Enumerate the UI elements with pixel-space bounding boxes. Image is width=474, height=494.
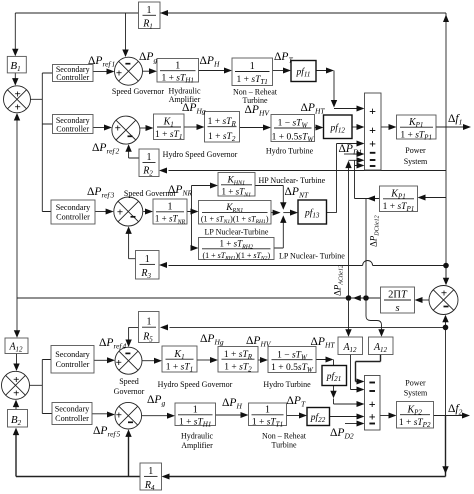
caption LP Nuclear Turbine 1 — [205, 228, 269, 237]
svg-text:+: + — [115, 123, 121, 135]
svg-text:Turbine: Turbine — [271, 441, 296, 450]
caption Hydro Speed Governor row2 — [163, 150, 238, 159]
svg-text:KHN1: KHN1 — [226, 176, 245, 187]
svg-text:KP2: KP2 — [406, 404, 422, 416]
block secondary controller SC4 — [51, 346, 94, 374]
block A12 first — [338, 337, 363, 355]
summer2 sign - input1 — [369, 382, 375, 384]
svg-text:ΔPHV: ΔPHV — [245, 104, 271, 118]
caption Hydraulic Amplifier area2 — [181, 432, 213, 451]
wire node to pf13 — [283, 212, 291, 214]
svg-text:A12: A12 — [342, 342, 357, 354]
block power system 2 K_P2/(1+sT_P2) — [397, 402, 434, 430]
svg-text:1: 1 — [168, 202, 173, 213]
summing junction ACE2 — [2, 371, 30, 399]
sign - SG5 bottom — [128, 421, 133, 423]
svg-text:Governor: Governor — [114, 387, 145, 396]
svg-text:Δf1: Δf1 — [448, 113, 462, 127]
block non-reheat turbine area2 1/(1+sT_T1) — [249, 403, 287, 428]
wire tie circle bottom input — [445, 322, 447, 327]
wire tie circle top input — [445, 266, 447, 279]
caption Speed Governor row4 — [114, 377, 145, 396]
svg-text:pf12: pf12 — [329, 123, 345, 135]
svg-text:ΔPH: ΔPH — [200, 55, 220, 69]
svg-text:K1: K1 — [163, 117, 174, 129]
caption LP Nuclear Turbine 2 — [279, 252, 345, 261]
wire SG4 to K1 block area2 — [142, 360, 156, 362]
svg-text:(1 + sTN1)(1 + sTRH1): (1 + sTN1)(1 + sTRH1) — [201, 214, 269, 225]
summer1 sign + input1 — [369, 104, 376, 118]
junction dot df1 riser — [443, 263, 449, 269]
wire left A12 to ACE2 — [16, 354, 18, 366]
svg-text:ΔPref4: ΔPref4 — [99, 337, 127, 351]
svg-text:Δf2: Δf2 — [448, 403, 463, 417]
wire SG2 to K1 block — [140, 127, 147, 129]
svg-text:ΔPHg: ΔPHg — [200, 333, 224, 347]
svg-text:+: + — [369, 137, 376, 151]
svg-text:Speed: Speed — [119, 377, 139, 386]
wire tie summing circle to 2piT block — [422, 299, 429, 301]
svg-text:ΔPDCtie12: ΔPDCtie12 — [369, 215, 381, 247]
block B1 — [7, 56, 26, 73]
label dP_Hg row4 — [200, 333, 224, 347]
wire SC5 to summing point SG5 — [92, 413, 108, 415]
wire top feedback line y=13 — [15, 13, 446, 127]
svg-text:ΔPg: ΔPg — [139, 51, 157, 65]
svg-text:B2: B2 — [11, 414, 22, 427]
wire DC link output junction — [349, 160, 380, 295]
svg-text:2ΠT: 2ΠT — [388, 290, 408, 301]
wire SC4 to summing point SG4 — [94, 359, 108, 361]
wire governor to hydro turbine — [240, 127, 265, 129]
label dP_ref5 — [93, 425, 121, 439]
svg-text:1 + sTR: 1 + sTR — [224, 350, 253, 361]
summing junction SG5 — [115, 402, 142, 429]
svg-text:ΔPg: ΔPg — [147, 394, 165, 408]
svg-text:ΔPH: ΔPH — [222, 397, 242, 411]
junction dot tie line left — [346, 295, 352, 301]
block power system 1 K_P1/(1+sT_P1) — [397, 115, 437, 141]
svg-text:Controller: Controller — [56, 73, 89, 82]
block B2 — [8, 410, 28, 428]
svg-text:+: + — [369, 123, 376, 137]
wire A12 second block elbow to summer2 input 1 — [356, 355, 381, 382]
block DC link K_P1/(1+sT_P1) — [380, 186, 418, 213]
sign + SG2 left — [115, 123, 121, 135]
label dP_ref1 — [88, 55, 115, 69]
svg-text:1: 1 — [147, 152, 152, 163]
label dP_g row1 — [139, 51, 157, 65]
block 1/R1 — [139, 2, 161, 31]
svg-text:1: 1 — [147, 5, 152, 16]
svg-text:1 + sTN1: 1 + sTN1 — [221, 186, 251, 198]
svg-text:B1: B1 — [10, 60, 20, 73]
label df2 — [448, 403, 463, 417]
label dP_ACtie12 rotated — [333, 265, 345, 296]
svg-text:LP Nuclear- Turbine: LP Nuclear- Turbine — [279, 252, 345, 261]
junction dot tie line right — [363, 295, 369, 301]
svg-text:ΔPref2: ΔPref2 — [92, 142, 120, 156]
sign + SG5 left — [116, 410, 122, 422]
wire 1/R5 to SG4 — [129, 327, 139, 340]
wire S-curve AC+DC tie down to A12 second block — [366, 301, 382, 331]
svg-text:Hydro Speed Governor: Hydro Speed Governor — [163, 150, 238, 159]
svg-text:1: 1 — [265, 405, 270, 416]
caption Non-Reheat Turbine area2 — [262, 432, 307, 450]
svg-text:Hydro Speed Governor: Hydro Speed Governor — [158, 380, 233, 389]
svg-text:pf13: pf13 — [304, 208, 320, 220]
arrowheads summer1 output / power system / df1 — [389, 124, 397, 130]
caption HP Nuclear Turbine — [259, 176, 326, 185]
svg-text:ΔPNR: ΔPNR — [168, 184, 192, 198]
arrowheads area1 row3 nuclear — [106, 209, 114, 215]
svg-text:System: System — [404, 157, 428, 166]
svg-text:Hydro Turbine: Hydro Turbine — [266, 147, 314, 156]
block HP nuclear turbine K_HN1/(1+sT_N1) — [218, 173, 255, 199]
label dP_ref4 — [99, 337, 127, 351]
svg-text:ΔPT: ΔPT — [274, 51, 293, 65]
wire ACE2 output to controller bus — [30, 360, 53, 414]
wire left tie riser down to left A12 — [16, 298, 18, 331]
svg-text:ΔPHT: ΔPHT — [311, 336, 336, 350]
block hydro governor area2 (1+sT_R)/(1+sT_2) — [218, 347, 258, 374]
svg-text:+: + — [117, 207, 123, 219]
caption Hydro Turbine area2 — [263, 380, 311, 389]
svg-text:A12: A12 — [373, 342, 388, 354]
svg-text:Secondary: Secondary — [56, 203, 91, 212]
wire pf11 to summer input 1 — [316, 71, 358, 109]
svg-text:R5: R5 — [142, 332, 153, 344]
wire SG1 to hydraulic amplifier — [143, 70, 151, 72]
svg-text:+: + — [15, 89, 21, 101]
svg-text:ΔPNT: ΔPNT — [285, 186, 309, 200]
svg-text:LP Nuclear-Turbine: LP Nuclear-Turbine — [205, 228, 269, 237]
summing junction SG4 — [115, 347, 142, 374]
svg-text:1 + sTT1: 1 + sTT1 — [252, 417, 283, 428]
svg-text:+: + — [369, 104, 376, 118]
svg-text:pf22: pf22 — [310, 412, 326, 424]
arrowheads area1 row1 — [12, 49, 18, 57]
wire LP1 output to node — [271, 212, 274, 214]
wire hydro turbine to pf12 — [315, 127, 318, 129]
wire load disturbance dP_D2 to summer2 input 5 — [345, 423, 358, 425]
sign + SG3 left — [117, 207, 123, 219]
block hydraulic amplifier area2 1/(1+sT_H1) — [175, 403, 216, 428]
wire bottom df2 feedback line — [169, 416, 446, 477]
svg-text:1 + sTH1: 1 + sTH1 — [161, 74, 194, 85]
wire load disturbance dP_D1 to summer input 4 — [344, 153, 358, 155]
summer1 sign + input2 — [369, 123, 376, 137]
svg-text:pf21: pf21 — [326, 371, 341, 383]
wire frequency output df1 — [436, 126, 464, 128]
label dP_ref2 — [92, 142, 120, 156]
wire summer1 to power system block — [381, 126, 390, 128]
wire SG3 to nuclear governor — [143, 211, 146, 213]
svg-text:Power: Power — [405, 379, 426, 388]
svg-text:Controller: Controller — [56, 213, 90, 222]
wire right riser df2 feedback up — [445, 327, 447, 415]
svg-text:Non – Reheat: Non – Reheat — [262, 432, 307, 441]
summer1 sign - input4 — [370, 152, 376, 154]
wire droop feedback to 1/R2 — [169, 170, 447, 172]
label dP_g row5 — [147, 394, 165, 408]
block hydraulic amplifier 1/(1+sT_H1) — [157, 59, 199, 85]
svg-text:1 + sT2: 1 + sT2 — [224, 363, 252, 374]
svg-text:Hydraulic: Hydraulic — [181, 432, 213, 441]
block K1/(1+sT1) — [154, 114, 185, 141]
wire HP turbine output to node — [255, 186, 283, 204]
sign - SG3 right — [131, 216, 136, 218]
svg-text:ΔPref3: ΔPref3 — [87, 186, 115, 200]
sign + ACE2 top — [13, 374, 19, 386]
svg-text:Controller: Controller — [55, 414, 89, 423]
wire df2 feedback to 1/R5 — [170, 326, 446, 328]
svg-text:1: 1 — [145, 254, 150, 265]
summer2 sign - input2 — [369, 390, 375, 392]
caption Hydraulic Amplifier row1 — [169, 87, 201, 105]
wire riser 1/R1 to speed-governor summing point — [125, 13, 127, 51]
svg-text:1: 1 — [175, 61, 180, 72]
wire left tie riser up to ACE1 — [16, 120, 18, 299]
label dP_HT row2 — [301, 102, 326, 116]
caption Power System area2 — [404, 379, 428, 398]
svg-text:1 + sTH1: 1 + sTH1 — [179, 417, 212, 428]
svg-text:KP1: KP1 — [408, 117, 423, 129]
svg-text:1: 1 — [147, 317, 152, 328]
block secondary controller SC5 — [52, 403, 92, 425]
svg-text:System: System — [404, 389, 428, 398]
block pf13 — [298, 200, 327, 224]
svg-text:1: 1 — [250, 61, 255, 72]
summer block area2 — [365, 376, 381, 431]
svg-text:ΔPACtie12: ΔPACtie12 — [333, 265, 345, 296]
svg-text:1 − sTW: 1 − sTW — [278, 119, 309, 130]
label dP_ref3 — [87, 186, 115, 200]
sign + tie top — [441, 288, 447, 300]
svg-text:R4: R4 — [144, 480, 155, 492]
block A12 second — [369, 337, 394, 355]
wire droop feedback to 1/R3 with hop — [169, 261, 447, 266]
svg-text:R2: R2 — [142, 166, 153, 178]
svg-text:1: 1 — [148, 466, 153, 477]
summing circles — [2, 57, 459, 429]
svg-text:+: + — [116, 357, 122, 369]
caption Speed Governor row1 — [112, 87, 165, 96]
summing junction SG2 — [112, 116, 140, 144]
label dP_DCtie12 rotated — [369, 215, 381, 247]
svg-text:1 + sT1: 1 + sT1 — [166, 362, 193, 373]
label dP_NT — [285, 186, 309, 200]
block LP nuclear turbine 2 (1+sT_RH2)/((1+sT_RH1)(1+sT_N2)) — [199, 238, 275, 262]
svg-text:+: + — [116, 410, 122, 422]
sign - SG1 top — [125, 63, 130, 65]
arrowheads tie path — [443, 278, 449, 286]
wire 1/R3 to SG3 — [129, 234, 136, 259]
svg-text:1 + sT2: 1 + sT2 — [208, 132, 236, 143]
wire K1 to hydro governor area2 — [197, 359, 212, 361]
captions — [112, 87, 428, 451]
svg-text:Controller: Controller — [56, 125, 89, 134]
sign + SG1 left — [116, 68, 122, 80]
block hydro turbine area2 (1-sT_W)/(1+0.5sT_W) — [268, 347, 316, 375]
wire SG5 to hydraulic amplifier area2 — [142, 415, 169, 417]
wire governor to hydro turbine area2 — [258, 359, 262, 361]
wire pf12 to summer input 2 — [352, 126, 358, 128]
caption Speed Governor row3 — [124, 189, 177, 198]
summing junction tie-line — [429, 286, 458, 315]
svg-text:s: s — [395, 303, 399, 314]
wire pf13 to summer input 3 — [327, 144, 359, 213]
sign - tie bottom — [444, 306, 449, 308]
svg-text:ΔPT: ΔPT — [287, 395, 306, 409]
signal labels — [87, 51, 463, 441]
label dP_T row5 — [287, 395, 306, 409]
label dP_D1 — [339, 143, 363, 157]
svg-text:Secondary: Secondary — [55, 405, 90, 414]
summer1 sign + input3 — [369, 137, 376, 151]
label dP_H row1 — [200, 55, 220, 69]
label dP_D2 — [330, 427, 354, 441]
wire DC link block input — [425, 197, 447, 199]
wire summer2 to power system block area2 — [380, 415, 390, 417]
svg-text:+: + — [369, 410, 376, 424]
sign + ACE1 bottom — [15, 102, 21, 114]
svg-text:Hydro Turbine: Hydro Turbine — [263, 380, 311, 389]
block hydro turbine (1-sT_W)/(1+0.5sT_W) — [271, 115, 315, 144]
svg-text:1 + sTP1: 1 + sTP1 — [383, 202, 415, 213]
svg-text:ΔPref1: ΔPref1 — [88, 55, 115, 69]
wire right riser df1 feedback — [445, 127, 447, 279]
svg-text:1 + 0.5sTW: 1 + 0.5sTW — [272, 133, 315, 144]
arrowheads DC link path — [418, 195, 426, 201]
summer rectangles — [365, 93, 382, 430]
svg-text:1: 1 — [193, 405, 198, 416]
label dP_T row1 — [274, 51, 293, 65]
svg-text:ΔPHT: ΔPHT — [301, 102, 326, 116]
block hydro governor (1+sT_R)/(1+sT_2) — [205, 112, 240, 144]
wire nuclear governor branch bus — [187, 186, 212, 249]
svg-text:KRN1: KRN1 — [225, 203, 243, 214]
wire 1/R4 output to B2 and SG5 — [16, 435, 140, 477]
arrowheads area2 — [13, 364, 19, 372]
svg-text:K1: K1 — [173, 349, 184, 361]
block pf11 — [291, 61, 316, 82]
caption Hydro Speed Governor area2 — [158, 380, 233, 389]
sign + ACE2 bottom — [13, 388, 19, 400]
svg-text:HP Nuclear- Turbine: HP Nuclear- Turbine — [259, 176, 326, 185]
summer block area1 — [365, 93, 382, 170]
arrowheads area1 row2 — [104, 125, 112, 131]
wire T2 to pf22 — [287, 415, 301, 417]
wire T1 to pf11 — [273, 70, 285, 72]
wire amplifier to turbine T1 — [199, 70, 226, 72]
svg-text:1 − sTW: 1 − sTW — [277, 350, 308, 361]
signs of summing circles — [13, 64, 448, 423]
block 1/R2 — [139, 149, 159, 178]
caption Power System area1 — [404, 146, 428, 166]
caption Hydro Turbine row2 — [266, 147, 314, 156]
caption Non-Reheat Turbine row1 — [233, 88, 278, 106]
svg-text:R1: R1 — [142, 19, 153, 31]
svg-text:+: + — [15, 102, 21, 114]
summer2 sign - input5 — [369, 423, 375, 425]
label df1 — [448, 113, 462, 127]
svg-text:ΔPHg: ΔPHg — [182, 102, 206, 116]
block A12 left — [5, 338, 28, 354]
summing junction SG3 — [114, 197, 143, 226]
wire ACtie riser to summer1 input 5 and down to A12 — [348, 167, 350, 331]
svg-text:A12: A12 — [8, 342, 23, 354]
summer2 sign + input3 — [369, 397, 376, 411]
wire riser to B1 — [14, 13, 16, 50]
sign + SG4 left — [116, 357, 122, 369]
svg-text:pf11: pf11 — [296, 67, 311, 79]
svg-text:1 + sTP2: 1 + sTP2 — [399, 418, 431, 429]
sign + ACE1 top — [15, 89, 21, 101]
svg-text:ΔPref5: ΔPref5 — [93, 425, 121, 439]
svg-text:ΔPD2: ΔPD2 — [330, 427, 354, 441]
svg-text:+: + — [116, 68, 122, 80]
wire B1 to ACE1 summing point — [14, 73, 16, 80]
junction dot df2 riser — [443, 325, 449, 331]
sign - SG2 bottom — [128, 135, 133, 137]
svg-text:KP1: KP1 — [390, 189, 405, 201]
wire 1/R2 to SG2 — [129, 151, 139, 158]
block nuclear governor 1/(1+sT_NR) — [153, 199, 187, 226]
block 1/R3 — [136, 251, 160, 280]
label dP_Hg row2 — [182, 102, 206, 116]
svg-text:R3: R3 — [140, 268, 151, 280]
summing junction SG1 — [115, 57, 143, 85]
svg-text:Secondary: Secondary — [55, 350, 90, 359]
label dP_HV row2 — [245, 104, 271, 118]
wire amplifier to turbine T2 — [216, 414, 243, 416]
block K1/(1+sT1) area2 — [162, 346, 197, 373]
wire ACE1 output to controller bus — [31, 73, 53, 212]
wire hydro turbine to pf21 — [316, 360, 334, 366]
block pf21 — [322, 366, 347, 386]
wire SC1 to summing point SG1 — [93, 71, 108, 73]
wire tie-line power distribution y=298 — [17, 297, 381, 299]
svg-text:Power: Power — [405, 146, 426, 155]
svg-text:Amplifier: Amplifier — [181, 441, 213, 450]
wire B2 to ACE2 — [15, 405, 17, 410]
label dP_H row5 — [222, 397, 242, 411]
wire frequency output df2 — [434, 415, 464, 417]
svg-text:1 + sTT1: 1 + sTT1 — [237, 75, 268, 86]
block LP nuclear turbine K_RN1/((1+sT_N1)(1+sT_RH1)) — [199, 201, 272, 226]
block tie-line 2piT/s — [381, 287, 415, 314]
wire A12 first block to summer2 input 2 — [351, 355, 359, 390]
label dP_HT row4 — [311, 336, 336, 350]
sign - SG4 top — [125, 352, 130, 354]
block secondary controller SC1 — [53, 65, 94, 83]
block pf12 — [324, 115, 353, 139]
svg-text:+: + — [441, 288, 447, 300]
label dP_HV row4 — [246, 335, 272, 349]
svg-text:ΔPHV: ΔPHV — [246, 335, 272, 349]
block secondary controller SC2 — [53, 115, 94, 134]
summer1 sign - input5 — [370, 159, 376, 161]
svg-text:Speed Governor: Speed Governor — [112, 87, 165, 96]
svg-text:Controller: Controller — [56, 360, 90, 369]
svg-text:+: + — [13, 388, 19, 400]
block 1/R4 — [140, 463, 162, 492]
blocks with transfer functions — [5, 2, 436, 427]
block secondary controller SC3 — [51, 200, 95, 224]
svg-text:1 + sTR: 1 + sTR — [208, 117, 237, 128]
wire K1 to hydro governor — [184, 126, 198, 128]
